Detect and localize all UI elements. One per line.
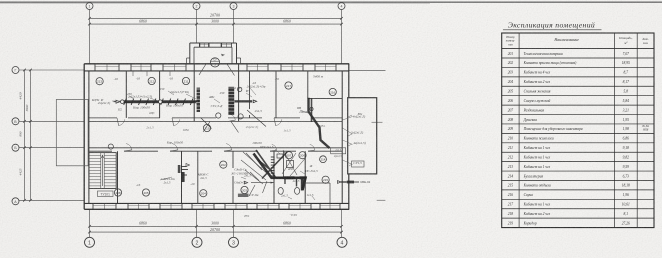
left annex rectangle bbox=[56, 100, 88, 166]
stair label box ТУ101 bbox=[98, 191, 114, 197]
room 215 inner wall bbox=[305, 182, 330, 184]
leader line bbox=[214, 99, 220, 103]
vestibule east wall bbox=[238, 64, 240, 122]
axis bubble 1 bottom bbox=[85, 237, 95, 247]
leader line bbox=[168, 91, 174, 95]
room tag circle 207 bbox=[285, 152, 292, 159]
axis extension line bottom bbox=[89, 209, 91, 237]
window south wall bbox=[319, 203, 321, 209]
axis extension line bottom bbox=[341, 209, 343, 237]
axis bubble 3 top bbox=[230, 3, 237, 10]
corridor upper wall bbox=[89, 117, 117, 119]
partition sanblock west bbox=[273, 151, 275, 203]
sanitary thick duct diagonal bbox=[254, 154, 306, 191]
leader line bbox=[275, 149, 280, 154]
room tag circle 216 bbox=[329, 88, 336, 95]
partition upper room 213/212 bbox=[125, 71, 127, 118]
partition room 216 west bbox=[307, 71, 309, 99]
thick duct diagonal center bbox=[309, 98, 330, 148]
axis extension line left bbox=[19, 147, 84, 149]
vestibule extra swings/diagonals bbox=[199, 64, 239, 133]
extra annotation cluster below sanitary bbox=[249, 181, 267, 196]
room tag circle 215 bbox=[322, 176, 329, 183]
scan top edge bbox=[0, 1, 662, 3]
partition upper room 218 west bbox=[249, 71, 251, 109]
stair stringers bbox=[100, 153, 102, 189]
bay step corner left bbox=[187, 57, 190, 59]
axis extension line left bbox=[19, 120, 84, 122]
axis 2 extension line top bbox=[196, 10, 198, 44]
leader line bbox=[300, 110, 308, 113]
bottom dimension line total 20700 bbox=[90, 231, 342, 233]
axis extension line bottom bbox=[196, 209, 198, 237]
door swing room 217 bbox=[276, 119, 282, 125]
window north wall bbox=[246, 64, 248, 71]
boxed label right of sanitary bbox=[331, 148, 346, 154]
room tag circle 212 bbox=[148, 77, 155, 84]
window south wall bbox=[159, 203, 161, 209]
door swing room 215 bbox=[310, 144, 315, 150]
partition sanblock east bbox=[304, 151, 306, 203]
arrow symbol left of main bbox=[116, 100, 120, 103]
south outer wall bbox=[84, 202, 349, 204]
door swing room 205 bbox=[172, 144, 178, 150]
dark marks in vestibule lower bbox=[201, 110, 267, 129]
duct vertical near room 216 bbox=[311, 98, 313, 122]
vestibule west wall bbox=[193, 64, 195, 122]
bay top wall ticks bbox=[198, 43, 200, 47]
extra tiny marks upper rooms bbox=[133, 71, 170, 76]
axis bubble Г left bbox=[12, 67, 19, 74]
table header bottom line bbox=[502, 48, 654, 50]
room tag circle 208 bbox=[114, 189, 121, 196]
axis extension line left bbox=[19, 69, 84, 71]
room tag circle 203 bbox=[241, 186, 248, 193]
axis 3 extension line top bbox=[233, 10, 235, 44]
room tag circle 211 bbox=[182, 77, 189, 84]
KVE unit mark right bbox=[338, 181, 342, 184]
axis 1 extension line top bbox=[89, 10, 91, 64]
thick supply main bar (upper rooms) bbox=[122, 100, 200, 103]
leader line bbox=[186, 94, 196, 99]
partition sanblock inner bbox=[283, 151, 285, 177]
table row lines bbox=[502, 57, 654, 59]
partition lower 205/204 bbox=[181, 151, 183, 203]
axis extension line bottom bbox=[233, 209, 235, 237]
stair arrow line bbox=[102, 155, 104, 186]
dark tick rows in vestibule blocks bbox=[196, 88, 201, 90]
window entrance bay bbox=[199, 43, 201, 47]
wc fixture bbox=[278, 188, 283, 195]
door swing room 213 bbox=[119, 119, 125, 125]
dark riser block left of vestibule bbox=[197, 88, 200, 112]
partition lower 203/202 bbox=[232, 151, 234, 168]
axis bubble 2 bottom bbox=[192, 237, 202, 247]
extra dark arm bbox=[285, 178, 297, 187]
room tag circle 217 bbox=[285, 82, 292, 89]
sanitary dark X cluster bbox=[256, 150, 287, 179]
table outer border bbox=[502, 33, 654, 228]
sink fixture bbox=[277, 154, 283, 158]
staircase hatched treads bbox=[89, 153, 116, 189]
window north wall bbox=[130, 64, 132, 71]
axis bubble 1 top bbox=[86, 3, 93, 10]
west outer wall bbox=[83, 64, 85, 210]
circle at stair top bbox=[108, 144, 113, 149]
leader line bbox=[300, 171, 305, 174]
dark riser cluster room 205 bbox=[178, 165, 181, 173]
leader line bbox=[288, 197, 292, 199]
leader line bbox=[349, 164, 352, 166]
dark stub room 205 bbox=[181, 172, 185, 182]
door swing stair bbox=[126, 144, 132, 150]
top dimension line segments 6860/3000/6860 bbox=[90, 23, 342, 25]
sanitary circle right cluster bbox=[320, 156, 327, 163]
axis bubble А left bbox=[12, 198, 19, 205]
leader line bbox=[348, 144, 352, 146]
leader line bbox=[348, 115, 352, 117]
stairwell east wall bbox=[117, 151, 119, 203]
window south wall bbox=[191, 203, 193, 209]
leader line bbox=[129, 96, 134, 99]
sanitary dark blobs bbox=[284, 176, 295, 179]
right annex rectangle bbox=[348, 98, 377, 174]
node circle on main bbox=[121, 100, 125, 104]
top dimension line 20700 bbox=[90, 17, 342, 19]
room 216 south wall bbox=[308, 97, 342, 99]
east outer wall bbox=[341, 71, 343, 204]
room tag circle 204 bbox=[200, 190, 207, 197]
window south wall bbox=[288, 203, 290, 209]
door swing vestibule bbox=[230, 114, 236, 120]
axis bubble 2 top bbox=[193, 3, 200, 10]
axis extension line left bbox=[19, 199, 84, 201]
entry stamp СУ5 bbox=[210, 58, 219, 67]
leader line bbox=[112, 100, 121, 102]
left dimension lines bbox=[24, 70, 26, 200]
window north wall bbox=[162, 64, 164, 71]
duct small circles along mains bbox=[238, 87, 242, 91]
bottom dimension line segments bbox=[90, 225, 342, 227]
axis 4 extension line top bbox=[341, 10, 343, 64]
room tag circle 202 bbox=[220, 161, 227, 168]
arrow mark 203 bbox=[244, 181, 248, 184]
north outer wall bbox=[84, 63, 349, 65]
axis bubble Б left bbox=[12, 144, 19, 151]
axis bubble 4 top bbox=[338, 3, 345, 10]
dark box label 203 bbox=[238, 194, 249, 197]
corridor lower wall bbox=[89, 147, 342, 149]
door swing sanblock bbox=[272, 144, 277, 150]
window south wall bbox=[256, 203, 258, 209]
axis А extension right bbox=[377, 199, 386, 201]
bay step corner right bbox=[237, 57, 241, 59]
table column lines bbox=[518, 33, 520, 228]
room tag circle 206 bbox=[299, 152, 306, 159]
partition upper room 212/211 bbox=[159, 71, 161, 118]
axis bubble 3 bottom bbox=[229, 237, 239, 247]
entrance bay outline bbox=[190, 42, 237, 44]
leader line bbox=[348, 134, 352, 136]
axis bubble 4 bottom bbox=[337, 237, 347, 247]
door entrance bay bbox=[221, 43, 223, 47]
annex label box bbox=[352, 161, 365, 167]
window north wall bbox=[280, 64, 282, 71]
room tag circle 205 bbox=[142, 189, 149, 196]
room tag circle 213 bbox=[96, 78, 103, 85]
shower tray bbox=[287, 161, 294, 168]
leader line bbox=[150, 98, 158, 101]
sanitary riser ladder bbox=[271, 156, 275, 158]
dark riser block vestibule center bbox=[228, 87, 234, 115]
room tag circle 219 bbox=[203, 124, 210, 131]
leader line bbox=[241, 177, 246, 179]
door swing room 204 bbox=[226, 144, 232, 150]
axis bubble В left bbox=[12, 118, 19, 125]
door swing room 212 bbox=[174, 119, 180, 125]
window south wall bbox=[127, 203, 129, 209]
window north wall bbox=[94, 64, 96, 71]
sanitary leader fan bbox=[241, 150, 306, 184]
window south wall bbox=[224, 203, 226, 209]
leader line bbox=[312, 196, 315, 200]
leader line bbox=[160, 177, 172, 180]
window north wall bbox=[314, 64, 316, 71]
partition upper room 217 west bbox=[275, 71, 277, 118]
small mark near stamp bbox=[221, 54, 225, 56]
leader line bbox=[246, 93, 252, 97]
partition lower 204b bbox=[197, 151, 199, 203]
leader fan to annex labels bbox=[343, 117, 353, 121]
sanblock inner horizontal wall bbox=[274, 177, 305, 179]
axis Г extension right bbox=[349, 70, 386, 72]
wc fixture 2 bbox=[295, 188, 300, 195]
thick bar from vestibule block to right bbox=[234, 100, 252, 102]
leader line bbox=[250, 88, 256, 95]
axis В extension right bbox=[372, 121, 383, 123]
window south wall bbox=[92, 203, 94, 209]
